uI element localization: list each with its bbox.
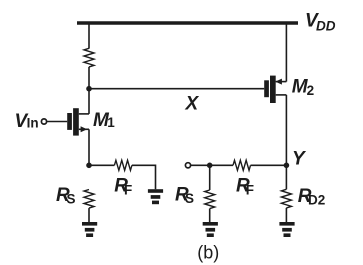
VDD rail <box>77 21 298 25</box>
svg-text:X: X <box>185 93 200 114</box>
wire terminal to node <box>191 164 210 166</box>
label RS middle <box>175 185 194 207</box>
node junction dot (M1 source / RS / RF) <box>86 163 92 169</box>
wire RD2 to ground <box>285 208 287 222</box>
transistor M2 gate bar <box>264 80 269 97</box>
transistor M1 channel bar <box>73 108 79 135</box>
transistor M1 source lead <box>79 128 89 130</box>
node junction dot (RS mid / RF mid) <box>207 163 213 169</box>
svg-text:S: S <box>185 191 194 206</box>
wire RS to ground <box>88 208 90 222</box>
wire RS middle to ground <box>209 209 211 222</box>
input terminal (open circle, middle branch) <box>185 163 190 168</box>
resistor RS (middle, vertical) <box>205 190 215 209</box>
transistor M2 bottom lead <box>276 94 287 96</box>
svg-text:1: 1 <box>107 115 115 130</box>
wire node X to M2 gate <box>89 88 264 90</box>
wire RD1 to node X <box>88 67 90 89</box>
wire RF to ground corner <box>132 165 156 189</box>
transistor M1 gate bar <box>67 113 72 130</box>
label Vin <box>15 111 39 132</box>
ground symbol (below RS middle) <box>203 222 218 237</box>
input terminal Vin (open circle) <box>41 119 46 124</box>
transistor M1 source arrow (NMOS, pointing right) <box>81 126 88 132</box>
svg-text:F: F <box>246 182 254 197</box>
ground symbol (below RD2) <box>279 222 294 237</box>
label RS left <box>56 185 76 207</box>
resistor RD1 (unlabeled drain resistor) <box>84 48 94 67</box>
label RD2 <box>298 186 325 207</box>
label RF left <box>114 176 132 198</box>
wire node Y up to M2 source <box>285 95 287 165</box>
label M2 <box>292 77 314 98</box>
wire rail to RD1 <box>88 25 90 49</box>
resistor RS (left, vertical) <box>84 190 94 209</box>
ground symbol (below RS left) <box>82 222 97 237</box>
svg-text:2: 2 <box>307 83 315 98</box>
wire RF middle to node Y <box>251 164 287 166</box>
transistor M2 top lead <box>276 81 287 83</box>
transistor M2 channel bar <box>270 76 276 103</box>
wire node Y down to RD2 <box>285 165 287 189</box>
transistor M2 arrow (pointing left toward channel) <box>275 79 282 85</box>
resistor RF (middle, horizontal) <box>233 160 251 170</box>
svg-text:In: In <box>27 115 39 130</box>
wire node to RF (middle) <box>210 164 233 166</box>
svg-text:Y: Y <box>292 149 307 170</box>
wire M2 top lead to VDD rail <box>285 23 287 82</box>
transistor M1 drain lead <box>79 113 89 115</box>
node Y junction dot <box>284 163 290 169</box>
svg-text:DD: DD <box>316 18 336 33</box>
label RF middle <box>236 176 254 198</box>
svg-text:D2: D2 <box>308 192 325 207</box>
resistor RD2 (vertical) <box>281 189 291 208</box>
label VDD <box>305 10 336 33</box>
wire Vin terminal to M1 gate <box>47 121 67 123</box>
wire M1 source down to node <box>88 129 90 165</box>
svg-text:S: S <box>67 191 76 206</box>
svg-text:F: F <box>124 183 132 198</box>
node X junction dot <box>86 86 92 92</box>
label M1 <box>93 110 115 131</box>
resistor RF (left, horizontal) <box>114 160 131 170</box>
wire node to RF (left) <box>89 164 114 166</box>
svg-text:(b): (b) <box>197 242 219 262</box>
wire node X down to M1 drain <box>88 89 90 114</box>
wire node down to RS (middle) <box>209 165 211 190</box>
ground symbol (right of RF left) <box>148 189 163 204</box>
